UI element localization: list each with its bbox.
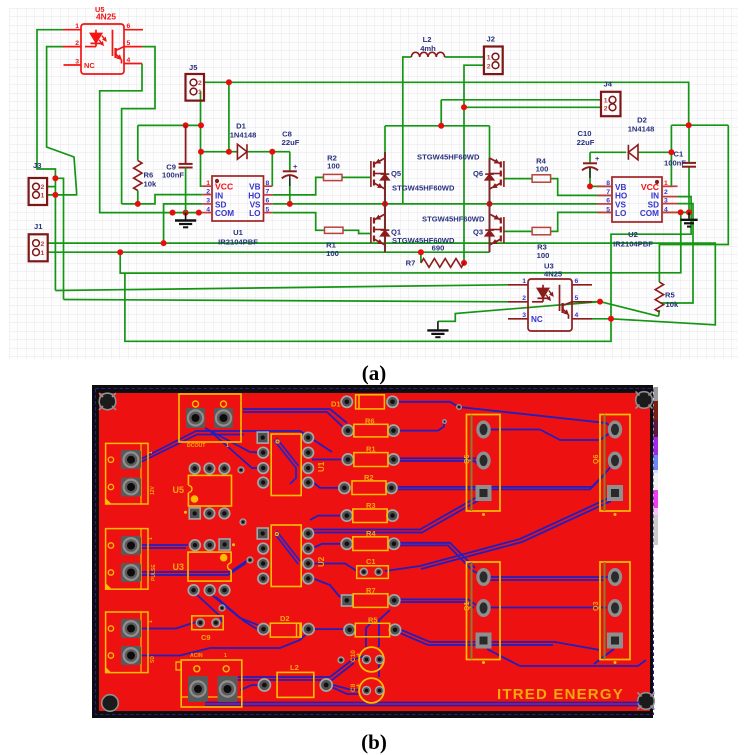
trace 12V to DCOUT/U1 bundle <box>141 431 242 459</box>
trace D2 to R5 <box>314 628 344 630</box>
svg-text:2: 2 <box>206 188 210 195</box>
wire branch J3p2 stub row <box>48 186 56 188</box>
wire R1 to Q1 gate <box>343 230 371 233</box>
svg-text:STGW45HF60WD: STGW45HF60WD <box>392 184 455 193</box>
junction at 611,318.8 <box>608 316 614 322</box>
svg-text:100: 100 <box>326 249 339 258</box>
svg-text:Q1: Q1 <box>464 602 471 611</box>
svg-text:VB: VB <box>615 183 626 192</box>
junction at 201,151.7 <box>198 149 204 155</box>
svg-text:COM: COM <box>640 209 659 218</box>
wire VS riser to L2 <box>403 57 412 204</box>
wire C8 top lead <box>289 152 291 171</box>
junction at 228.9,151.7 <box>226 149 232 155</box>
svg-text:HO: HO <box>248 191 261 200</box>
wire C10 top lead <box>589 152 591 163</box>
svg-text:2: 2 <box>522 295 526 302</box>
svg-text:C1: C1 <box>366 557 376 566</box>
svg-text:1: 1 <box>148 620 154 623</box>
D2 PCB footprint <box>258 614 314 637</box>
junction at 600,301.6 <box>597 299 603 305</box>
junction at 289.8,203.9 <box>287 201 293 207</box>
svg-text:1N4148: 1N4148 <box>230 131 257 140</box>
svg-text:U5: U5 <box>172 485 184 495</box>
svg-text:6: 6 <box>266 198 270 205</box>
svg-text:4: 4 <box>664 206 668 213</box>
wire Q5 collector drop <box>384 126 386 152</box>
wire COM2 rail <box>662 211 689 213</box>
svg-text:DCOUT: DCOUT <box>187 443 206 449</box>
svg-text:Q3: Q3 <box>593 602 600 611</box>
ground GND3 center bottom <box>427 321 448 337</box>
PCB blue traces <box>141 402 646 706</box>
U2 PCB footprint DIP8 <box>257 525 326 587</box>
Q3 PCB footprint <box>593 562 630 664</box>
svg-text:VS: VS <box>250 201 261 210</box>
svg-text:R1: R1 <box>366 445 376 454</box>
wire J4 pin2 line <box>464 106 601 108</box>
trace R3 left <box>310 516 347 520</box>
wire branch to x63.5 vertical <box>55 178 63 299</box>
wire R6 top <box>137 125 139 160</box>
svg-text:NC: NC <box>531 315 543 324</box>
terminal block 12V <box>106 443 156 504</box>
wire SD2 net <box>661 204 693 303</box>
R1 PCB footprint <box>342 445 399 467</box>
svg-text:R3: R3 <box>366 501 376 510</box>
svg-text:1: 1 <box>487 55 491 62</box>
trace ACIN bundle <box>238 656 364 677</box>
trace Q5 column vertical <box>489 430 611 441</box>
junction at 420.9,252.2 <box>418 249 424 255</box>
svg-text:ITRED ENERGY: ITRED ENERGY <box>497 686 624 703</box>
svg-text:+: + <box>293 162 298 171</box>
wire R6 bottom lead <box>137 191 139 204</box>
svg-text:J4: J4 <box>604 80 613 89</box>
svg-text:C8: C8 <box>350 683 357 692</box>
R3 PCB footprint <box>341 501 398 523</box>
resistor R2 <box>324 174 343 180</box>
small vias <box>219 405 461 663</box>
svg-text:HO: HO <box>615 192 628 201</box>
diode D1 1N4148 <box>237 144 247 159</box>
U1 PCB footprint DIP8 <box>257 432 326 495</box>
IC U1 IR2104PBF <box>202 176 272 247</box>
trace R1 to Q5 <box>399 457 476 459</box>
wire GND link bus to COM2 <box>120 212 681 273</box>
svg-text:R5: R5 <box>665 291 675 300</box>
svg-text:J2: J2 <box>487 35 495 44</box>
trace DCOUT down to U5 region <box>205 428 262 453</box>
wire U3 pin5 to R5 bottom <box>592 302 659 317</box>
svg-text:1: 1 <box>224 653 227 659</box>
svg-text:SD: SD <box>150 656 156 663</box>
C10 PCB footprint <box>350 647 384 672</box>
junction at 137.8,203.9 <box>135 201 141 207</box>
mounting hole top-right <box>636 392 653 409</box>
junction at 464,107.3 <box>461 104 467 110</box>
wire D1 anode lead <box>201 151 238 153</box>
svg-text:100: 100 <box>536 165 549 174</box>
svg-text:U1: U1 <box>317 461 326 472</box>
trace Q5 bottom to U2 right <box>313 497 477 530</box>
L2 PCB footprint <box>258 663 332 697</box>
svg-text:Q3: Q3 <box>473 228 483 237</box>
junction at 680.6,212.4 <box>678 209 684 215</box>
trace C10/C8 risers <box>379 610 390 647</box>
IC U2 IR2104PBF (mirrored) <box>597 177 678 249</box>
svg-text:R6: R6 <box>144 171 154 180</box>
svg-text:D2: D2 <box>637 116 647 125</box>
svg-text:IN: IN <box>651 192 659 201</box>
wire Q6 gate to R4 <box>504 178 532 180</box>
junction at 385,203.9 <box>382 201 388 207</box>
wire R3 to LO2 <box>551 212 612 231</box>
svg-text:4mh: 4mh <box>420 44 436 53</box>
connector J1 <box>29 234 48 261</box>
svg-text:2: 2 <box>604 105 608 112</box>
svg-text:J5: J5 <box>189 63 198 72</box>
R4 PCB footprint <box>341 529 399 551</box>
wire J1 pin2 long line to right edge and U3 pin5 <box>48 243 716 325</box>
junction at 55.4,178.3 <box>52 175 58 181</box>
wire D2 anode lead <box>638 151 671 153</box>
svg-text:1: 1 <box>226 443 229 449</box>
wire L2 right to J2 pin1 <box>445 56 484 58</box>
R2 PCB footprint <box>339 473 397 495</box>
wire C8 bottom lead <box>289 179 291 204</box>
svg-text:R7: R7 <box>406 259 416 268</box>
trace L2 to C8 <box>333 685 360 690</box>
mounting hole bottom-right <box>638 693 655 710</box>
wire HO to R2 <box>272 177 323 195</box>
svg-text:1: 1 <box>198 89 202 96</box>
svg-text:2: 2 <box>41 241 45 248</box>
mounting hole bottom-left <box>102 695 119 712</box>
svg-text:Q5: Q5 <box>391 169 402 178</box>
resistor R6 zigzag <box>134 161 142 191</box>
svg-text:1: 1 <box>75 23 79 30</box>
svg-text:8: 8 <box>606 180 610 187</box>
capacitor C1 <box>682 163 696 167</box>
svg-text:U3: U3 <box>172 562 184 572</box>
mounting hole top-left <box>99 393 116 410</box>
junction at 489.5,203.9 <box>487 201 493 207</box>
svg-text:VS: VS <box>615 200 626 209</box>
svg-text:+: + <box>595 154 600 163</box>
wire C1 bottom lead <box>688 167 690 213</box>
transistor Q5 IGBT <box>371 152 389 204</box>
svg-text:3: 3 <box>522 312 526 319</box>
wire Q6 collector drop <box>489 126 491 158</box>
wire D2 cathode to C10 <box>590 151 626 153</box>
resistor R7 zigzag horizontal <box>421 259 465 268</box>
junction at 120.2,252.2 <box>117 249 123 255</box>
transistor Q3 IGBT mirrored <box>485 204 504 252</box>
capacitor C10 polarized <box>582 163 598 178</box>
svg-text:IN: IN <box>215 191 223 200</box>
trace R7 to Q1 <box>400 599 476 605</box>
wire Q3 gate to R3 <box>504 230 532 232</box>
svg-text:1: 1 <box>41 193 45 200</box>
svg-text:PULSE: PULSE <box>151 564 157 581</box>
svg-text:C9: C9 <box>201 633 211 642</box>
svg-text:10k: 10k <box>144 180 157 189</box>
svg-text:R6: R6 <box>365 417 375 426</box>
svg-text:1: 1 <box>522 278 526 285</box>
ACIN terminal block <box>176 653 242 707</box>
svg-text:U1: U1 <box>233 228 243 237</box>
terminal block SD <box>106 612 156 673</box>
svg-text:3: 3 <box>206 198 210 205</box>
svg-text:LO: LO <box>249 209 261 218</box>
svg-text:7: 7 <box>266 189 270 196</box>
svg-text:LO: LO <box>615 209 627 218</box>
inductor L2 <box>411 52 444 57</box>
svg-text:J3: J3 <box>33 161 41 170</box>
junction at 272.3,151.7 <box>269 149 275 155</box>
wire J5 pin1 down to VCC of U1 <box>201 91 203 186</box>
svg-text:8: 8 <box>266 180 270 187</box>
wire VCC2 feed from top rail <box>659 125 728 282</box>
trace SD block right <box>141 622 196 629</box>
svg-text:R2: R2 <box>364 473 374 482</box>
svg-text:4N25: 4N25 <box>96 12 116 22</box>
wire D1 cathode to C8 <box>247 151 290 153</box>
wire lower-left riser to bottom bus <box>125 197 691 342</box>
junction at 590,186.4 <box>587 183 593 189</box>
trace U3 bottom to D2/C9 bundle <box>212 595 258 625</box>
PCB red board <box>99 393 650 711</box>
wire U3 pin4 link <box>592 318 611 320</box>
trace PULSE to U3 <box>141 544 188 546</box>
resistor R3 <box>532 227 551 234</box>
R7 PCB footprint <box>342 586 400 608</box>
svg-text:L2: L2 <box>423 35 432 44</box>
R6 PCB footprint <box>342 417 399 437</box>
wire U5 pin4 to COM rail <box>100 64 203 213</box>
wire VS bus <box>272 203 597 205</box>
Q5 PCB footprint <box>464 415 500 517</box>
wire R2 to Q5 gate <box>342 176 371 178</box>
svg-text:6: 6 <box>606 198 610 205</box>
C8 PCB footprint <box>350 678 384 703</box>
trace R6 via <box>399 423 444 431</box>
svg-text:VCC: VCC <box>215 182 233 192</box>
svg-text:5: 5 <box>266 206 270 213</box>
wire U3 pin5 emitter to ground <box>438 302 600 322</box>
svg-text:2: 2 <box>75 40 79 47</box>
wire SD1 down to J1 pin2 line <box>164 204 203 243</box>
diode D2 1N4148 <box>628 145 638 160</box>
wire J2 pin2 down x464 <box>464 65 484 263</box>
wire U5 pin1 to J3 area <box>37 30 63 291</box>
wire VCC rail top <box>138 124 201 126</box>
svg-text:6: 6 <box>127 23 131 30</box>
junction at 688.7,125.2 <box>686 122 692 128</box>
wire R5 bottom lead <box>658 310 661 316</box>
wire U5 pin5 to R6 bottom / IN <box>122 47 155 204</box>
optocoupler U3 <box>508 279 592 331</box>
U3 PCB footprint <box>172 539 235 596</box>
C9 PCB footprint <box>192 616 223 642</box>
capacitor C9 <box>179 125 193 212</box>
svg-text:1: 1 <box>206 180 210 187</box>
wire sloped to U3 pin2 <box>64 300 509 302</box>
svg-text:2: 2 <box>664 189 668 196</box>
svg-text:1: 1 <box>148 451 154 454</box>
transistor Q6 IGBT mirrored <box>485 158 504 204</box>
svg-text:D1: D1 <box>236 122 246 131</box>
wire LO to R1 <box>272 213 324 231</box>
svg-text:4N25: 4N25 <box>544 270 563 279</box>
svg-text:SD: SD <box>648 200 659 209</box>
junction at 671.4,152.3 <box>668 149 674 155</box>
svg-text:3: 3 <box>664 198 668 205</box>
svg-text:SD: SD <box>215 201 226 210</box>
svg-text:1: 1 <box>148 537 154 540</box>
svg-text:4: 4 <box>575 312 579 319</box>
svg-text:5: 5 <box>127 40 131 47</box>
junction at 163.6,243.1 <box>161 240 167 246</box>
svg-text:4: 4 <box>206 206 210 213</box>
R5 PCB footprint <box>344 615 401 637</box>
PCB black frame <box>92 385 653 718</box>
svg-text:IR2104PBF: IR2104PBF <box>613 240 653 249</box>
svg-text:STGW45HF60WD: STGW45HF60WD <box>422 215 485 224</box>
svg-text:1: 1 <box>604 98 608 105</box>
svg-text:100: 100 <box>537 251 550 260</box>
svg-text:Q6: Q6 <box>473 169 483 178</box>
svg-text:ACIN: ACIN <box>190 653 203 659</box>
junction at 55.4,194.9 <box>52 192 58 198</box>
transistor Q1 IGBT <box>371 204 389 252</box>
svg-text:U2: U2 <box>628 230 638 239</box>
Q1 PCB footprint <box>464 562 500 664</box>
svg-text:6: 6 <box>575 278 579 285</box>
svg-text:VB: VB <box>249 183 260 192</box>
svg-text:7: 7 <box>606 189 610 196</box>
svg-text:1N4148: 1N4148 <box>628 125 655 134</box>
svg-text:IR2104PBF: IR2104PBF <box>218 238 258 247</box>
wire R4 to HO2 <box>551 179 612 196</box>
svg-text:10k: 10k <box>666 300 679 309</box>
svg-text:R5: R5 <box>368 615 378 624</box>
junction at 185.6,212.6 <box>183 210 189 216</box>
resistor R1 <box>325 227 344 233</box>
junction at 185.6,125.4 <box>183 122 189 128</box>
wire drop x228.9 to D1 anode <box>228 82 230 151</box>
DCOUT terminal block <box>179 394 241 449</box>
svg-text:L2: L2 <box>290 663 299 672</box>
svg-text:2: 2 <box>487 63 491 70</box>
ground GND2 under U2 COM <box>680 212 697 226</box>
connector J3 <box>29 178 47 205</box>
svg-text:2: 2 <box>41 184 45 191</box>
svg-text:C10: C10 <box>350 650 357 662</box>
svg-text:U2: U2 <box>317 556 326 567</box>
svg-text:(b): (b) <box>361 730 387 754</box>
svg-text:2: 2 <box>198 80 202 87</box>
D1 PCB footprint <box>331 395 398 409</box>
wire J1 pin1 / GND long bottom rail <box>48 251 490 253</box>
PCB dashed keepout border <box>96 389 654 715</box>
svg-text:4: 4 <box>127 57 131 64</box>
svg-text:22uF: 22uF <box>282 138 300 147</box>
svg-text:3: 3 <box>75 59 79 66</box>
trace R4 to Q1 <box>400 543 475 568</box>
U5 PCB footprint <box>172 463 231 519</box>
wire VB riser <box>271 152 273 187</box>
ground GND1 under C9 <box>175 213 196 228</box>
wire VCC2 rail <box>671 124 728 126</box>
svg-text:1: 1 <box>41 250 45 257</box>
junction at 198.8,212.6 <box>196 210 202 216</box>
junction at 228.9,82.3 <box>226 79 232 85</box>
svg-text:22uF: 22uF <box>577 138 595 147</box>
resistor R5 zigzag <box>655 282 663 312</box>
junction at 441.2,125.8 <box>438 123 444 129</box>
svg-text:Q5: Q5 <box>464 455 471 464</box>
svg-text:NC: NC <box>84 61 95 70</box>
svg-text:D1: D1 <box>331 400 341 409</box>
svg-text:12V: 12V <box>150 485 156 495</box>
wire bridge top rail <box>385 125 490 127</box>
wire J4 pin1 drop <box>440 100 442 126</box>
svg-text:R7: R7 <box>366 586 376 595</box>
junction at 201,125.4 <box>198 122 204 128</box>
C1 PCB footprint <box>357 557 389 578</box>
wire J5 pin2 top rail to right <box>204 82 689 125</box>
svg-text:100nF: 100nF <box>664 159 686 168</box>
junction at 689,212.4 <box>686 209 692 215</box>
trace Q1 to Q3 mid rows <box>489 576 608 578</box>
svg-text:(a): (a) <box>362 361 387 385</box>
svg-text:C1: C1 <box>674 150 684 159</box>
svg-text:J1: J1 <box>34 222 43 231</box>
capacitor C8 polarized <box>282 171 298 186</box>
wire R7 left lead <box>420 252 422 263</box>
svg-text:100: 100 <box>327 162 340 171</box>
resistor R4 <box>532 175 551 182</box>
svg-text:100nF: 100nF <box>162 171 184 180</box>
wire sloped J3p2 net to U3 pin1 <box>55 285 508 291</box>
svg-text:C10: C10 <box>578 129 592 138</box>
PCB color artifact strip right edge <box>654 387 660 630</box>
svg-text:STGW45HF60WD: STGW45HF60WD <box>392 236 455 245</box>
connector J5 <box>186 74 205 101</box>
trace bottom long bus <box>205 702 640 704</box>
svg-text:R4: R4 <box>366 529 376 538</box>
wire R6 bottom rail and IN riser <box>122 195 203 204</box>
trace D1 to Q6 <box>398 402 612 427</box>
schematic grid background <box>9 8 738 359</box>
terminal block PULSE <box>106 529 157 590</box>
svg-text:1: 1 <box>664 180 668 187</box>
junction at 172.5,212.6 <box>170 210 176 216</box>
connector J4 <box>601 92 621 116</box>
wire C10 bottom to VB2 <box>590 167 612 186</box>
trace U2 to C1/R7 <box>313 564 357 572</box>
trace top bundle DCOUT to R6/D1 <box>243 409 347 423</box>
wire U5 pin2 diagonal to J3 pin1 <box>47 47 77 195</box>
Q6 PCB footprint <box>593 415 630 517</box>
svg-text:D2: D2 <box>280 614 290 623</box>
svg-text:COM: COM <box>215 209 234 218</box>
wire J4 pin1 line <box>441 99 601 101</box>
wire VCC2 riser to D2 and U2 VCC <box>662 125 671 186</box>
optocoupler U5 <box>63 24 143 74</box>
